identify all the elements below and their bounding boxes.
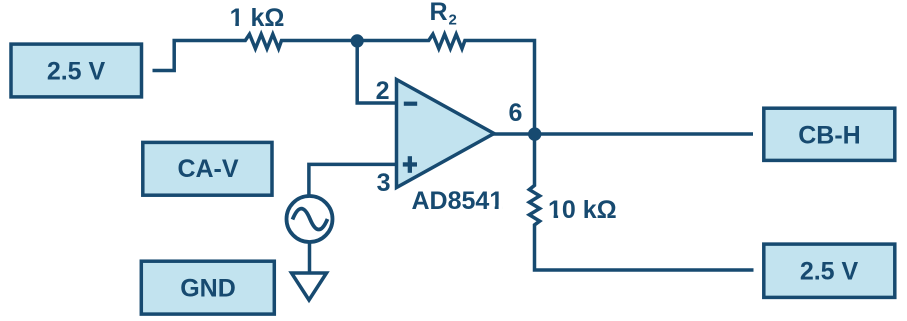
svg-text:2: 2 bbox=[449, 12, 457, 29]
svg-text:R: R bbox=[430, 0, 448, 26]
svg-text:CA-V: CA-V bbox=[177, 155, 238, 183]
svg-text:2.5 V: 2.5 V bbox=[47, 58, 106, 86]
svg-text:1 kΩ: 1 kΩ bbox=[230, 4, 285, 32]
svg-text:2: 2 bbox=[376, 77, 390, 105]
svg-text:2.5 V: 2.5 V bbox=[800, 258, 859, 286]
svg-text:GND: GND bbox=[180, 275, 236, 303]
svg-text:6: 6 bbox=[509, 99, 523, 127]
svg-text:3: 3 bbox=[377, 169, 391, 197]
svg-text:AD8541: AD8541 bbox=[412, 187, 504, 215]
svg-text:10 kΩ: 10 kΩ bbox=[548, 196, 617, 224]
svg-text:CB-H: CB-H bbox=[798, 122, 861, 150]
